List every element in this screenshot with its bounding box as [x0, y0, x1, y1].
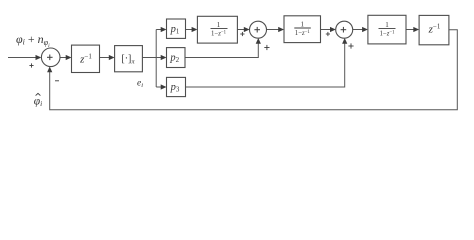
- arrowhead into B3: [362, 27, 368, 32]
- bar B1: [211, 27, 228, 29]
- arrowhead into B1: [192, 27, 198, 32]
- wire feedback Z2 output down along right, bottom, up into S1: [50, 30, 458, 110]
- block Z2 z^-1: [419, 15, 449, 44]
- summing junction S1: [41, 48, 60, 67]
- wire S3 to B3: [353, 29, 365, 31]
- wire B2 to S3: [321, 29, 333, 31]
- svg-text:φi: φi: [34, 96, 42, 109]
- svg-text:1: 1: [385, 21, 389, 29]
- arrowhead into S2 bottom: [256, 38, 261, 44]
- plus inside S2: [254, 27, 260, 33]
- svg-text:1: 1: [217, 21, 221, 29]
- wire branch to P3: [156, 86, 163, 88]
- block P2: [167, 48, 186, 68]
- plus inside S3: [341, 27, 347, 33]
- plus inside S1: [47, 55, 53, 61]
- bar B3: [379, 27, 396, 29]
- label minus at feedback of S1: [55, 80, 59, 82]
- block Z1 z^-1: [72, 45, 100, 72]
- wire P1 to B1: [186, 29, 195, 31]
- label plus below S2: [264, 45, 269, 50]
- bar B2: [294, 27, 311, 29]
- arrowhead into S1: [36, 55, 42, 60]
- arrowhead into P3: [161, 84, 167, 89]
- wire P3 to S3 from below: [186, 41, 345, 87]
- label plus before S2: [240, 32, 244, 36]
- wire S1 to Z1: [60, 57, 68, 59]
- summing junction S2: [250, 21, 267, 38]
- label plus at input of S1: [29, 63, 33, 67]
- wire S2 to B2: [267, 29, 282, 31]
- block B2 accumulator 2: [284, 16, 321, 43]
- wire P2 to S2 from below: [185, 41, 258, 58]
- arrowhead into Q: [109, 55, 115, 60]
- wire branch vertical: [155, 30, 157, 88]
- wire Q to P2 with branch node: [143, 57, 164, 59]
- block B1 accumulator 1: [197, 16, 237, 43]
- arrowhead feedback into S1 bottom: [47, 67, 52, 73]
- svg-text:φi + nφi: φi + nφi: [16, 32, 50, 49]
- label plus before S3: [326, 32, 330, 36]
- arrowhead into Z2: [413, 27, 419, 32]
- block P1: [167, 19, 186, 38]
- arrowhead into S2 left: [244, 27, 250, 32]
- wire Z1 to Q: [100, 57, 112, 59]
- wire B3 to Z2: [406, 29, 416, 31]
- arrowhead into S3 left: [330, 27, 336, 32]
- hat accent of phi-hat: [36, 93, 41, 95]
- arrowhead into B2: [278, 27, 284, 32]
- arrowhead into P1: [161, 27, 167, 32]
- block Q quantizer: [115, 46, 143, 72]
- wire B1 to S2: [238, 29, 247, 31]
- svg-text:1: 1: [301, 21, 305, 29]
- block B3 accumulator 3: [368, 15, 406, 44]
- arrowhead into P2: [161, 55, 167, 60]
- arrowhead into Z1: [66, 55, 72, 60]
- wire branch to P1: [156, 29, 163, 31]
- arrowhead into S3 bottom: [342, 38, 347, 44]
- fraction bars: [211, 27, 396, 29]
- wire input to sum S1: [8, 57, 38, 59]
- svg-text:ei: ei: [137, 79, 143, 90]
- summing junction S3: [336, 21, 353, 38]
- label plus below S3: [348, 43, 353, 48]
- block P3: [167, 77, 186, 96]
